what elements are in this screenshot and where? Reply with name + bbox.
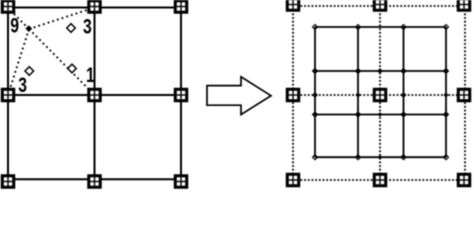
svg-text:1: 1 <box>86 63 95 87</box>
svg-text:3: 3 <box>83 14 92 38</box>
svg-text:9: 9 <box>10 13 19 37</box>
svg-text:3: 3 <box>18 73 27 97</box>
